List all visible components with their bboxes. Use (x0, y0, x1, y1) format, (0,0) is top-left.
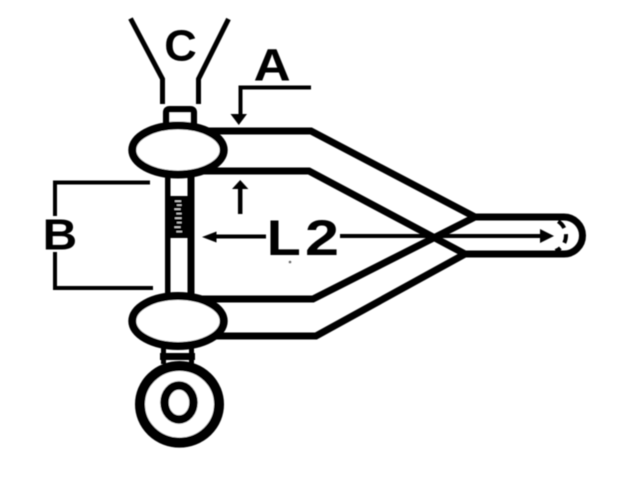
svg-text:B: B (43, 212, 78, 260)
svg-text:C: C (164, 22, 197, 71)
svg-text:A: A (254, 40, 291, 91)
svg-text:L: L (267, 209, 301, 266)
svg-text:2: 2 (305, 209, 339, 266)
